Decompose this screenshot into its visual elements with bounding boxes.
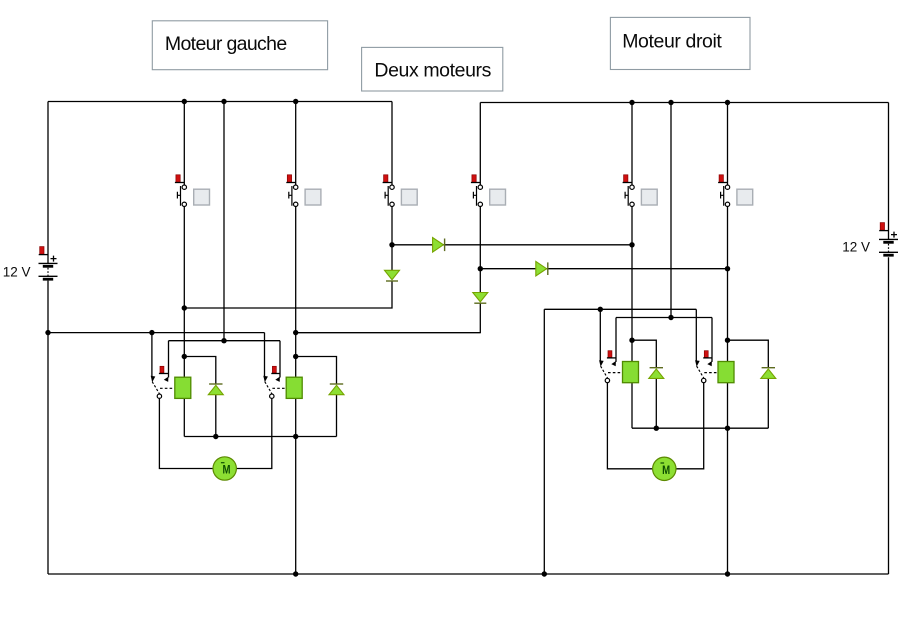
push button S1 plunger (177, 186, 180, 206)
wire drop to button S6 (727, 103, 729, 185)
relay K3 common terminal (605, 378, 609, 382)
wire bottom rail (48, 573, 889, 575)
wire coil K1 to bottom node (183, 398, 185, 436)
wire relay K4 common to motor M2 (676, 383, 704, 469)
wire button S4 to diode D2 node (479, 207, 481, 293)
node D / wire1b (293, 330, 298, 335)
wire relay K4 NO drop (711, 318, 713, 362)
relay K2 coil (286, 377, 302, 398)
flyback diode FD4 (761, 368, 776, 379)
push button S5 terminals (630, 185, 634, 207)
wire drop to button S2 (295, 102, 297, 185)
wire node I to flyback FD4 (728, 340, 769, 368)
wire node D to flyback FD2 (296, 357, 337, 385)
wire drop to button S4 (479, 103, 481, 185)
wire negative bus right (R1) (544, 308, 696, 310)
relay K4 coil link (dashed) (704, 372, 720, 374)
node BW1 / flyback FD1 (213, 434, 218, 439)
push button S6 plunger (721, 186, 724, 206)
relay K1 coil link (dashed) (160, 387, 176, 389)
wire right rail below battery (888, 257, 890, 574)
wire top bus right (480, 102, 888, 104)
wire diode D4 to node D branch (296, 303, 481, 332)
node R1 / relay K3 NC (598, 307, 603, 312)
node BW2 / column I (725, 426, 730, 431)
wire relay bottom bus right (BW2) (632, 427, 768, 429)
wire diode D1 output to node G (392, 244, 632, 246)
svg-text:Moteur droit: Moteur droit (622, 30, 722, 52)
wire relay K2 common to motor M1 (236, 399, 271, 469)
svg-text:M: M (223, 463, 231, 477)
wire button S6 to coil K4 (727, 207, 729, 362)
wire relay K1 NO drop (168, 341, 170, 378)
push button S3 terminals (390, 185, 394, 207)
relay K2 fixed contact right (275, 377, 280, 382)
battery B2 (right, 12 V) (879, 223, 898, 256)
svg-text:12 V: 12 V (3, 265, 31, 280)
relay K1 common terminal (157, 394, 161, 398)
wire positive link left (wire2) (169, 340, 281, 342)
push button S1 red indicator (175, 175, 184, 183)
diode D1 (S3 to right motor) (433, 238, 445, 253)
wire flyback FD1 return (215, 395, 217, 437)
wire coil K4 to bottom node (727, 383, 729, 574)
wire button S3 to diode D1 node (391, 207, 393, 271)
relay K3 moving contact (dashed) (601, 366, 608, 378)
node diode D1 / column G (629, 242, 634, 247)
relay K3 coil (623, 362, 639, 383)
wire relay K2 NO drop (279, 341, 281, 378)
push button S4 terminals (478, 185, 482, 207)
push button S6 red indicator (718, 175, 727, 183)
label box Moteur droit (610, 17, 750, 69)
relay K4 common terminal (702, 378, 706, 382)
svg-text:Moteur gauche: Moteur gauche (165, 33, 287, 55)
relay K1 moving contact (dashed) (152, 382, 159, 394)
wire drop to button S1 (183, 102, 185, 185)
node top bus left / button S2 (293, 99, 298, 104)
push button S6 terminals (725, 185, 729, 207)
motor M2 (653, 457, 676, 480)
wire relay K3 NO drop (615, 318, 617, 362)
push button S2 actuator pad (305, 189, 321, 205)
node R2 / column H (668, 315, 673, 320)
relay K4 moving contact (dashed) (697, 366, 704, 378)
push button S3 plunger (385, 186, 388, 206)
relay K1 contact red indicator (159, 366, 169, 373)
wire positive link right (R2) (616, 317, 712, 319)
svg-text:M: M (662, 463, 670, 477)
wire node B to flyback FD1 (184, 357, 216, 385)
push button S5 red indicator (623, 175, 632, 183)
push button S5 actuator pad (641, 189, 657, 205)
relay K2 common terminal (270, 394, 274, 398)
node I flyback branch (725, 338, 730, 343)
wire button S2 to node D (295, 207, 297, 378)
relay K2 contact red indicator (271, 366, 280, 373)
push button S3 red indicator (383, 175, 392, 183)
wire top bus left (48, 101, 392, 103)
label box Deux moteurs (362, 47, 503, 91)
push button S1 actuator pad (194, 189, 210, 205)
diode D3 (S3 to left motor) (385, 270, 400, 281)
wire left rail below battery (47, 281, 49, 574)
push button S5 plunger (625, 186, 628, 206)
node B flyback branch (182, 354, 187, 359)
relay K1 fixed contact left (151, 376, 156, 383)
wire column H (positive feed right) (670, 103, 672, 318)
motor M1 (213, 457, 236, 480)
relay K4 fixed contact right (707, 361, 712, 366)
relay K3 contact red indicator (607, 351, 617, 358)
diode D2 (S4 to right motor) (536, 261, 548, 276)
push button S2 plunger (289, 186, 292, 206)
node G flyback branch (629, 338, 634, 343)
wire relay K3 NC drop (599, 309, 601, 362)
node top bus right / button S5 (629, 100, 634, 105)
wire relay K3 common to motor M2 (607, 383, 652, 469)
wire drop to button S5 (631, 103, 633, 185)
node column C / wire2 (221, 338, 226, 343)
wire column C (positive feed left) (223, 102, 225, 341)
wire button S5 to coil K3 (631, 207, 633, 362)
relay K4 contact red indicator (703, 351, 712, 358)
wire flyback FD2 return (336, 395, 338, 437)
node BW1 / column D (293, 434, 298, 439)
flyback diode FD1 (208, 384, 223, 395)
push button S4 plunger (473, 186, 476, 206)
relay K3 fixed contact right (611, 361, 616, 366)
svg-text:12 V: 12 V (842, 240, 870, 255)
diode D4 (S4 to left motor pair) (473, 293, 488, 304)
node bottom rail / column I (725, 571, 730, 576)
push button S2 red indicator (286, 175, 295, 183)
node diode D2 / column I (725, 266, 730, 271)
node top bus right / button S6 (725, 100, 730, 105)
node top bus left / button S1 (182, 99, 187, 104)
wire relay K1 NC drop (151, 333, 153, 378)
relay K4 fixed contact left (695, 360, 700, 367)
relay K2 fixed contact left (263, 376, 268, 383)
battery B1 (left, 12 V) (39, 247, 58, 280)
flyback diode FD3 (649, 368, 664, 379)
flyback diode FD2 (329, 384, 344, 395)
relay K2 moving contact (dashed) (265, 382, 272, 394)
wire diode D3 to node B branch (184, 281, 392, 308)
node top bus right / column H (668, 100, 673, 105)
wire left rail above battery (47, 102, 49, 264)
node button S4 / diode D2 (478, 266, 483, 271)
push button S6 actuator pad (737, 189, 753, 205)
wire button S1 to node B (183, 207, 185, 378)
wire drop to button S3 (391, 102, 393, 185)
push button S4 actuator pad (490, 189, 506, 205)
node left rail / negative bus (45, 330, 50, 335)
wire negative riser (543, 309, 545, 574)
node negative bus / relay K1 NC (149, 330, 154, 335)
node top bus left / column C (221, 99, 226, 104)
relay K2 coil link (dashed) (272, 387, 288, 389)
node bottom rail / column D (293, 571, 298, 576)
wire coil K3 to bottom node (631, 383, 633, 429)
node B diode D3 junction (182, 305, 187, 310)
relay K3 coil link (dashed) (608, 372, 624, 374)
push button S4 red indicator (471, 175, 480, 183)
node D flyback branch (293, 354, 298, 359)
wire node D to diode D4 bottom (296, 332, 481, 334)
wire coil K2 to bottom node (295, 398, 297, 574)
node button S3 / diode D1 (389, 242, 394, 247)
relay K3 fixed contact left (599, 360, 604, 367)
wire right rail above battery (888, 103, 890, 240)
wire relay bottom bus left (BW1) (184, 436, 336, 438)
push button S2 terminals (294, 185, 298, 207)
svg-text:Deux moteurs: Deux moteurs (374, 60, 491, 82)
wire flyback FD3 return (655, 378, 657, 428)
label box Moteur gauche (152, 21, 327, 70)
push button S1 terminals (182, 185, 186, 207)
push button S3 actuator pad (401, 189, 417, 205)
wire node G to flyback FD3 (632, 340, 656, 368)
relay K1 fixed contact right (164, 377, 169, 382)
relay K1 coil (175, 377, 191, 398)
wire diode D2 output to node I (480, 268, 727, 270)
wire relay K1 common to motor M1 (159, 399, 213, 469)
wire relay K2 NC drop (264, 333, 266, 378)
wire relay K4 NC drop (695, 309, 697, 362)
wire negative bus left (wire1a) (48, 332, 265, 334)
wire flyback FD4 return (767, 378, 769, 428)
node bottom rail / riser (542, 571, 547, 576)
relay K4 coil (718, 362, 734, 383)
node BW2 / flyback FD3 (654, 426, 659, 431)
